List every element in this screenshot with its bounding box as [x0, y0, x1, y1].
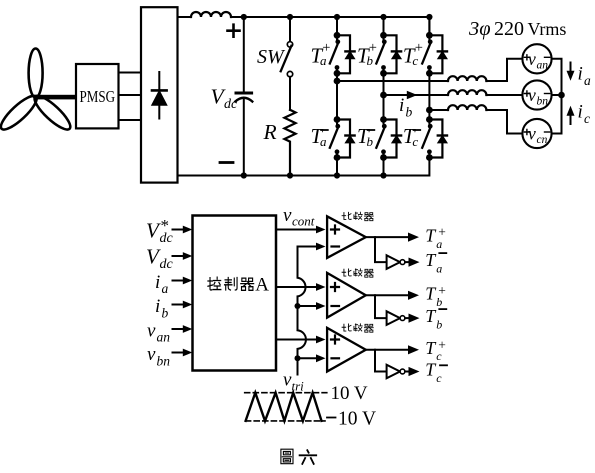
triangle carrier waveform: [245, 393, 327, 421]
label Ta+: [311, 40, 331, 68]
switch Tb+ (upper): [376, 14, 401, 77]
phase c wire to vcn: [486, 110, 522, 134]
switch Tb- (lower): [376, 73, 401, 178]
node + branch to comparator 3 - input: [295, 355, 301, 361]
comparator b (op-amp): [327, 273, 366, 318]
label -10 V: [327, 409, 376, 430]
+ label: [228, 25, 240, 37]
node + branch to comparator 2 - input: [295, 303, 301, 309]
svg-text:v: v: [147, 321, 156, 342]
switch Ta- (lower): [330, 73, 355, 178]
comparator c (op-amp): [327, 328, 366, 372]
switch Tc- (lower): [422, 73, 447, 161]
phase c tap node: [426, 107, 433, 114]
bottom rail wire: [178, 158, 430, 176]
svg-text:i: i: [399, 95, 404, 116]
Vdc label: [211, 85, 239, 113]
branch to inverter gate: [375, 350, 387, 372]
resistor R: [284, 110, 295, 179]
label ia: [578, 64, 592, 89]
inductor L1 (dc link): [191, 12, 231, 17]
switch Ta+ (upper): [330, 14, 355, 77]
svg-text:c: c: [436, 371, 442, 385]
wire vcont to comparator a + input: [276, 226, 326, 234]
switch Tc+ (upper): [422, 14, 447, 77]
logic inverter (NOT gate): [387, 255, 400, 269]
wire PMSG to rectifier (3 phases): [119, 73, 142, 121]
ia arrow: [567, 63, 575, 81]
svg-text:v: v: [283, 205, 292, 226]
svg-text:+: +: [438, 225, 446, 240]
inductor phase a: [448, 76, 486, 81]
svg-text:220: 220: [494, 18, 524, 40]
inductor phase b: [448, 90, 486, 95]
caption: figure six (tu liu): [281, 449, 316, 464]
label Tb-: [357, 124, 374, 149]
label Vdc* (reference): [146, 216, 174, 246]
label Ta+: [425, 225, 446, 251]
svg-text:cn: cn: [537, 134, 548, 146]
phase a tap node: [334, 78, 341, 85]
logic inverter (NOT gate): [387, 365, 400, 379]
label Tc+: [425, 337, 446, 362]
branch to inverter gate: [375, 295, 387, 318]
svg-text:i: i: [155, 272, 160, 293]
svg-text:10 V: 10 V: [331, 383, 368, 404]
phase b wire + ib arrow: [384, 94, 449, 96]
comparator b output wire: [366, 294, 409, 296]
label ib: [155, 296, 169, 321]
label Tb-: [425, 306, 446, 331]
comparator label (bi jiao qi): [342, 212, 373, 220]
label Tc-: [403, 124, 420, 149]
svg-text:R: R: [263, 120, 277, 144]
label ia: [155, 272, 169, 296]
label Tc+: [403, 40, 423, 68]
label Vdc: [146, 245, 174, 273]
svg-text:Vrms: Vrms: [528, 19, 567, 39]
svg-text:+: +: [415, 40, 423, 56]
label vtri: [283, 370, 304, 394]
svg-text:i: i: [578, 64, 583, 85]
wire input Vdc: [173, 252, 193, 260]
svg-text:an: an: [157, 330, 171, 345]
label Tb+: [357, 40, 377, 68]
source van: [522, 44, 551, 73]
svg-text:b: b: [367, 134, 374, 149]
svg-text:dc: dc: [224, 97, 238, 112]
svg-text:+: +: [369, 40, 377, 56]
svg-text:3φ: 3φ: [468, 18, 491, 40]
controller box (Controller A): [193, 216, 277, 371]
top rail wire: [178, 17, 430, 35]
label van: [147, 321, 170, 345]
svg-text:*: *: [161, 216, 170, 235]
svg-text:v: v: [528, 85, 536, 105]
svg-text:an: an: [537, 59, 549, 71]
comparator a (op-amp): [327, 216, 366, 258]
node right bus: [558, 92, 565, 99]
right bus wire: [552, 59, 562, 134]
source vcn: [522, 119, 551, 148]
phase b tap node: [380, 92, 387, 99]
phase c wire: [429, 109, 448, 111]
svg-text:bn: bn: [537, 96, 549, 108]
wire vcont to comparator b + input: [276, 283, 326, 291]
svg-text:bn: bn: [157, 354, 171, 369]
svg-text:v: v: [147, 344, 156, 365]
wire input vbn: [173, 349, 193, 357]
wire input Vdc*: [173, 226, 193, 234]
label vbn: [147, 344, 170, 369]
logic inverter (NOT gate): [387, 311, 400, 325]
svg-text:i: i: [155, 296, 160, 317]
svg-text:PMSG: PMSG: [80, 87, 116, 106]
svg-text:i: i: [578, 102, 583, 123]
svg-text:b: b: [436, 318, 442, 332]
label Ta-: [425, 250, 446, 275]
label Ta-: [311, 124, 328, 149]
svg-text:c: c: [584, 111, 590, 126]
rectifier box: [141, 7, 178, 182]
- label: [220, 161, 233, 164]
branch to inverter gate: [375, 237, 387, 262]
wire input ia: [173, 277, 193, 285]
label Tb+: [425, 283, 446, 309]
inductor phase c: [448, 105, 486, 110]
label vcont: [283, 205, 315, 229]
label ib: [399, 95, 413, 120]
svg-text:+: +: [438, 283, 446, 298]
svg-text:a: a: [584, 73, 591, 88]
svg-text:a: a: [320, 134, 327, 149]
svg-text:+: +: [322, 40, 330, 56]
phase b wire to vbn: [486, 94, 523, 96]
label ic: [578, 102, 591, 127]
svg-text:10 V: 10 V: [338, 409, 376, 430]
svg-text:SW: SW: [257, 46, 286, 68]
PMSG box: [76, 64, 119, 128]
vtri distribution wire with hops: [298, 247, 318, 375]
svg-text:c: c: [412, 134, 418, 149]
wind turbine blades: [0, 49, 74, 134]
svg-text:v: v: [528, 49, 536, 69]
switch SW: [281, 14, 293, 110]
capacitor C (Vdc): [235, 14, 252, 179]
svg-text:b: b: [162, 306, 169, 321]
phase a wire to van: [486, 59, 522, 81]
svg-text:v: v: [528, 124, 536, 144]
comparator label (bi jiao qi): [342, 324, 373, 332]
svg-text:cont: cont: [292, 214, 315, 229]
wire input van: [173, 325, 193, 333]
svg-text:a: a: [436, 262, 442, 276]
comparator c output wire: [366, 349, 409, 351]
turbine shaft: [36, 95, 77, 100]
svg-text:dc: dc: [160, 257, 174, 272]
ic arrow: [567, 106, 575, 124]
wire vcont to comparator c + input: [276, 336, 326, 344]
source vbn: [522, 80, 551, 109]
comparator a output wire: [366, 236, 409, 238]
wire input ib: [173, 301, 193, 309]
phase a wire: [337, 80, 448, 82]
svg-text:a: a: [162, 281, 169, 296]
label Tc-: [425, 360, 447, 385]
svg-text:b: b: [406, 105, 413, 120]
label 3-phase 220 Vrms: [468, 18, 566, 40]
svg-text:A: A: [255, 274, 269, 295]
diode D1 in rectifier: [152, 72, 167, 119]
svg-text:+: +: [438, 337, 446, 352]
label Controller A (kong zhi qi A): [208, 274, 269, 295]
comparator label (bi jiao qi): [342, 269, 373, 277]
